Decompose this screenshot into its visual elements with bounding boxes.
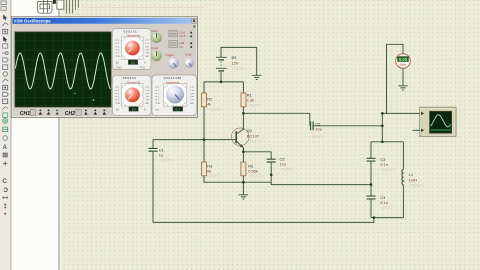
coupling buttons xyxy=(169,30,178,37)
capacitor C2 xyxy=(267,159,276,162)
inductor L1 xyxy=(402,169,404,184)
junction (204,139.6) xyxy=(203,138,206,141)
capacitor C4 xyxy=(367,196,376,199)
wire L1 stems xyxy=(402,142,404,218)
svg-text:<TEXT>: <TEXT> xyxy=(159,158,175,163)
junction (271.2,174.9) xyxy=(270,174,273,177)
resistor R3 xyxy=(202,162,207,176)
svg-text:<TEXT>: <TEXT> xyxy=(309,134,325,139)
capacitor C1 xyxy=(149,148,158,151)
svg-text:B3: B3 xyxy=(232,55,238,60)
wire R1 stems xyxy=(242,82,244,113)
wire ground bus xyxy=(243,181,271,183)
ground (battery) xyxy=(252,75,261,79)
svg-text:C: C xyxy=(2,178,7,185)
svg-text:0.5 0.2 0.1 50: 0.5 0.2 0.1 50 xyxy=(164,76,182,80)
svg-text:0.1: 0.1 xyxy=(175,108,180,112)
resistor R2 xyxy=(202,93,207,107)
wire base xyxy=(153,139,236,141)
resistor R1 xyxy=(241,93,246,107)
junction (243.4,151.8) xyxy=(242,150,245,153)
svg-text:<TEXT>: <TEXT> xyxy=(409,182,425,187)
CRT screen xyxy=(15,32,111,107)
wire R3 stems xyxy=(204,140,243,183)
junction (382.3,141.8) xyxy=(381,140,384,143)
Horizontal panel xyxy=(152,75,197,116)
junction (382.3,113.4) xyxy=(381,112,384,115)
junction (243.4,113.3) xyxy=(242,112,245,115)
svg-text:CH1: CH1 xyxy=(20,111,30,117)
ground (meter) xyxy=(398,86,407,90)
wire C1 stems xyxy=(152,140,154,223)
junction (382.3,125.8) xyxy=(381,124,384,127)
wire R6 stems xyxy=(242,148,244,182)
svg-text:<TEXT>: <TEXT> xyxy=(380,205,396,210)
svg-text:Pos n: Pos n xyxy=(152,29,159,33)
wire emitter to C2 xyxy=(243,152,271,182)
title bar xyxy=(12,18,196,24)
object selector white panel xyxy=(11,0,61,270)
svg-text:<TEXT>: <TEXT> xyxy=(207,173,223,178)
oscilloscope instrument xyxy=(420,107,456,136)
svg-text:<TEXT>: <TEXT> xyxy=(207,106,223,111)
Channel B panel xyxy=(113,75,152,115)
svg-text:<TEXT>: <TEXT> xyxy=(247,102,263,107)
AC voltmeter xyxy=(396,54,411,69)
wire to scope pin A xyxy=(382,112,420,114)
wire tank top rail xyxy=(371,141,403,143)
faint selection line xyxy=(82,7,205,9)
svg-text:C: C xyxy=(3,187,8,194)
svg-text:Volts: Volts xyxy=(400,62,407,66)
svg-text:Ch A: Ch A xyxy=(179,30,185,34)
capacitor C5 xyxy=(311,121,314,130)
wire riser xyxy=(381,113,383,141)
svg-text:<TEXT>: <TEXT> xyxy=(380,167,396,172)
wire meter to ground xyxy=(402,69,404,86)
svg-text:<TEXT>: <TEXT> xyxy=(247,138,263,143)
wire vcc rail xyxy=(204,81,243,83)
wire tank left xyxy=(370,142,372,218)
capacitor C3 xyxy=(367,158,376,161)
svg-text:0.00: 0.00 xyxy=(399,57,408,62)
svg-text:<TEXT>: <TEXT> xyxy=(232,66,248,71)
wire battery to vcc rail xyxy=(220,72,222,82)
junction (243.4,182.2) xyxy=(242,181,245,184)
svg-text:Invert: Invert xyxy=(152,46,159,50)
VSM Oscilloscope window xyxy=(11,17,197,118)
svg-text:20: 20 xyxy=(131,61,135,65)
wire bottom bus xyxy=(153,218,374,223)
junction (371,184.6) xyxy=(370,183,373,186)
svg-text:Ch B: Ch B xyxy=(179,34,185,38)
svg-text:<TEXT>: <TEXT> xyxy=(280,167,296,172)
svg-text:Trigger: Trigger xyxy=(165,53,174,57)
close button xyxy=(192,18,197,23)
junction (373.9,217.6) xyxy=(373,216,376,219)
wire R2 stems xyxy=(203,82,205,140)
svg-text:VSM Oscilloscope: VSM Oscilloscope xyxy=(13,18,51,23)
svg-text:10u: 10u xyxy=(315,127,322,132)
battery B3 xyxy=(216,56,227,58)
svg-text:A: A xyxy=(3,145,8,151)
wire battery top to ground xyxy=(221,47,257,75)
wire scope pin B stub xyxy=(413,129,421,131)
svg-text:d Adj: d Adj xyxy=(185,52,191,56)
wire collector to C5 xyxy=(243,113,309,126)
svg-text:CH2: CH2 xyxy=(65,111,75,117)
wire meter drop xyxy=(387,44,404,113)
junction (221,81.9) xyxy=(220,81,223,84)
wire to ground (emitter) xyxy=(242,182,244,195)
svg-text:GND: GND xyxy=(116,66,122,69)
Channel A panel xyxy=(113,29,152,70)
resistor R6 xyxy=(241,162,246,176)
transistor Q1 xyxy=(231,113,249,152)
ground (emitter) xyxy=(239,195,248,199)
left toolbar xyxy=(0,0,11,270)
wire C5 right to riser xyxy=(313,125,382,127)
partial component doodle top-left xyxy=(38,0,79,13)
wire tank bottom rail xyxy=(371,217,403,219)
svg-text:10: 10 xyxy=(132,108,136,112)
svg-text:<TEXT>: <TEXT> xyxy=(248,173,264,178)
svg-text:POS: POS xyxy=(140,66,145,69)
wire tap jog xyxy=(271,182,371,184)
svg-text:Add: Add xyxy=(179,41,184,45)
